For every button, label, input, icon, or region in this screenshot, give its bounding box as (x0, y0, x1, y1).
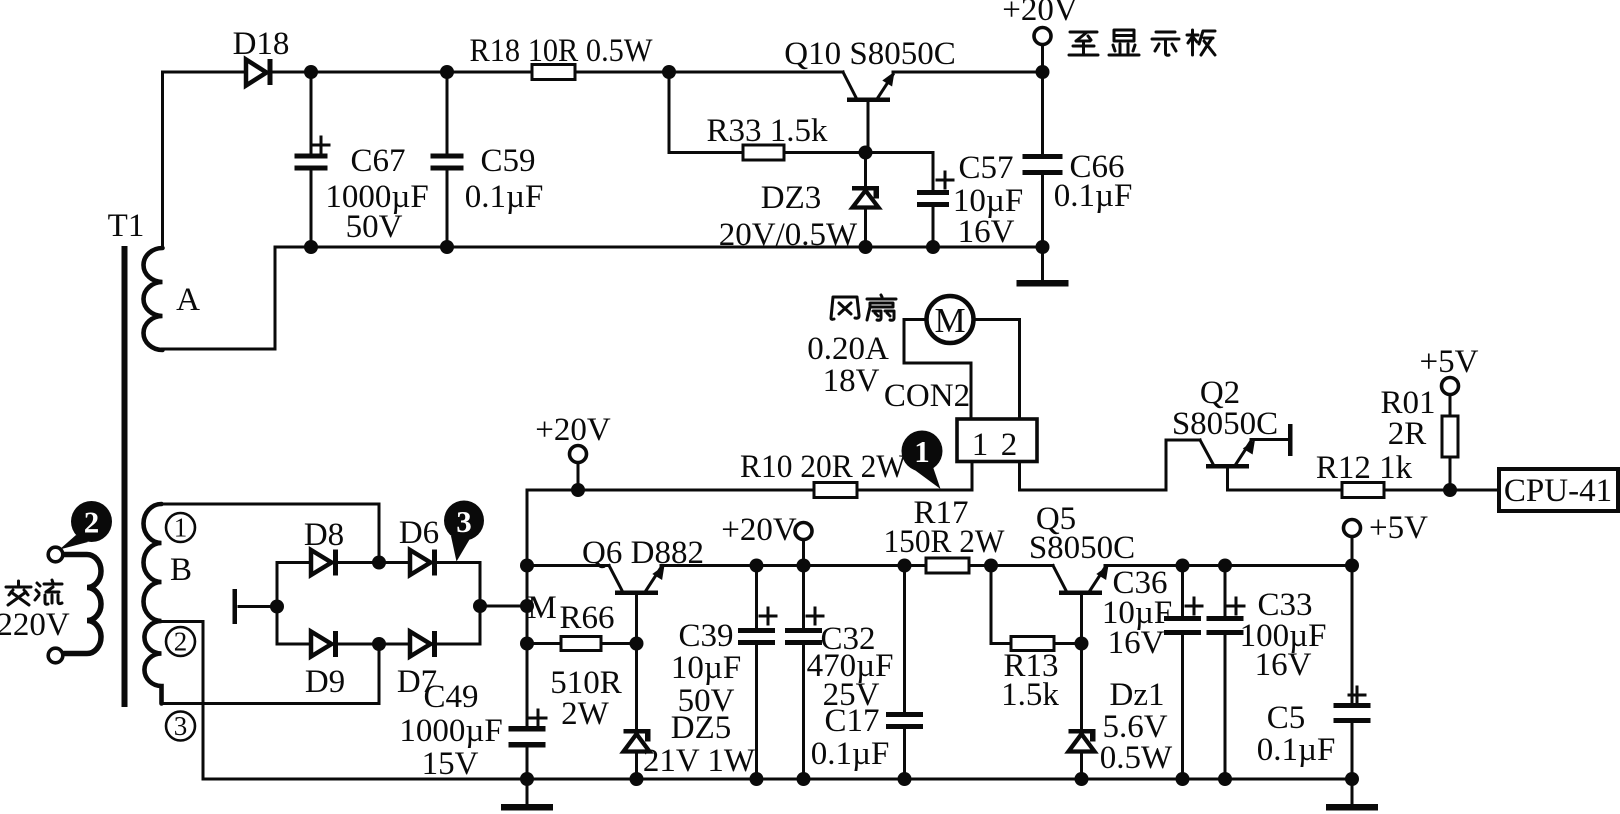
node junction R01 bottom (1443, 483, 1457, 497)
wire R01 to node (1449, 457, 1452, 490)
transformer T1 winding B (144, 504, 162, 704)
node junction Q5 base (1075, 637, 1089, 651)
node junction bridge bottom (372, 637, 386, 651)
pin 1 label CON2 (972, 427, 989, 463)
svg-text:R66: R66 (559, 600, 614, 636)
balloon marker 2 (60, 501, 113, 550)
wire Q2 base to R12 (1228, 489, 1343, 492)
transistor Q5 (1053, 565, 1109, 729)
pin 2 label CON2 (1001, 427, 1018, 463)
label D9 (305, 664, 345, 700)
svg-text:T1: T1 (108, 208, 145, 244)
label D7 (397, 664, 437, 700)
resistor R13 (1011, 637, 1082, 651)
resistor R18 (532, 65, 575, 80)
diode D6 (410, 550, 437, 576)
svg-text:C5: C5 (1267, 700, 1306, 736)
zener Dz1 (1069, 729, 1096, 779)
wire top rail left (163, 71, 247, 74)
capacitor C59 (431, 72, 464, 247)
motor M fan (927, 296, 974, 343)
ground under C66 (1017, 247, 1069, 287)
transistor Q2 (1200, 440, 1255, 490)
svg-text:R18 10R 0.5W: R18 10R 0.5W (470, 33, 654, 69)
svg-text:0.1µF: 0.1µF (465, 179, 544, 215)
terminal +20V mid (570, 446, 587, 491)
label fan current (807, 331, 889, 367)
svg-text:0.1µF: 0.1µF (1257, 732, 1336, 768)
capacitor C39 (738, 566, 776, 780)
svg-text:16V: 16V (1108, 625, 1165, 661)
wire bridge frame (277, 563, 480, 645)
svg-text:B: B (170, 552, 192, 588)
diode D7 (410, 631, 437, 657)
label Q2 (1172, 375, 1278, 442)
svg-text:D18: D18 (233, 26, 290, 62)
svg-text:20V/0.5W: 20V/0.5W (719, 217, 858, 253)
label +5V right (1369, 510, 1428, 546)
svg-text:15V: 15V (422, 746, 479, 782)
resistor R12 (1342, 483, 1384, 498)
label R01 value (1380, 385, 1435, 452)
node junction C32 bottom (797, 772, 811, 786)
svg-text:CON2: CON2 (884, 378, 970, 414)
terminal +5V top (1442, 378, 1459, 417)
label C33 (1240, 587, 1327, 683)
svg-text:1.5k: 1.5k (1001, 677, 1059, 713)
capacitor C66 (1023, 72, 1063, 247)
svg-text:16V: 16V (1255, 647, 1312, 683)
node junction R33 tap (662, 65, 676, 79)
node junction DZ5 bottom (630, 772, 644, 786)
label C5 (1257, 700, 1336, 768)
svg-text:+5V: +5V (1369, 510, 1428, 546)
svg-text:+20V: +20V (721, 512, 797, 548)
label Dz1 value (1100, 677, 1173, 776)
svg-text:1: 1 (174, 513, 188, 543)
node junction C36 bottom (1176, 772, 1190, 786)
svg-text:R12 1k: R12 1k (1316, 450, 1413, 486)
node junction C17 top (898, 559, 912, 573)
wire Q6 collector feed (527, 564, 609, 567)
svg-text:3: 3 (456, 504, 472, 539)
svg-text:0.1µF: 0.1µF (1054, 178, 1133, 214)
svg-text:0.5W: 0.5W (1100, 740, 1173, 776)
wire bridge to node M (480, 605, 527, 608)
label C66 (1054, 149, 1133, 214)
svg-text:DZ5: DZ5 (671, 710, 732, 746)
label DZ3 value (719, 180, 858, 253)
node junction Q6 collector tap (520, 559, 534, 573)
capacitor C33 (1207, 566, 1245, 780)
svg-text:220V: 220V (0, 607, 70, 643)
capacitor C57 (917, 172, 953, 247)
diode D18 (246, 59, 273, 86)
svg-text:S8050C: S8050C (1172, 406, 1278, 442)
wire winding B tap3 to bridge bottom (162, 644, 380, 704)
label C57 (953, 150, 1023, 250)
label R18 value (470, 33, 654, 69)
capacitor C32 (785, 566, 823, 780)
svg-text:1: 1 (972, 427, 989, 463)
label D6 (399, 515, 439, 551)
label +20V mid (535, 412, 611, 448)
label C32 (807, 621, 894, 713)
terminal AC primary bottom (48, 648, 63, 663)
label C17 (811, 703, 890, 772)
label R17 value (884, 495, 1006, 560)
label R13 value (1001, 648, 1059, 713)
label C39 (671, 618, 741, 719)
wire +20V rail to R10 (527, 489, 814, 492)
transformer T1 core (122, 246, 128, 707)
wire bottom ground rail (203, 778, 1352, 781)
svg-text:D8: D8 (304, 517, 344, 553)
label Q10 (784, 36, 955, 72)
node junction Q6 base R66 (630, 637, 644, 651)
resistor R10 (814, 483, 857, 498)
terminal +5V right (1344, 520, 1361, 566)
label FengShan fan (831, 295, 896, 320)
wire Q5 emitter rail +5V (1105, 564, 1352, 567)
wire winding A top riser (161, 72, 164, 248)
node junction C39 top (750, 559, 764, 573)
node junction C59 top (440, 65, 454, 79)
node M junction (520, 599, 534, 613)
wire fan left lead (904, 320, 971, 420)
wire R10 to CON2 pin1 (857, 489, 972, 492)
svg-text:M: M (527, 590, 556, 626)
capacitor C36 (1164, 566, 1202, 780)
node junction C49 bottom (520, 772, 534, 786)
svg-text:Dz1: Dz1 (1110, 677, 1165, 713)
svg-text:A: A (176, 282, 200, 318)
wire Q2 emitter to stub (1251, 438, 1288, 441)
node junction +5V C5 top (1345, 559, 1359, 573)
capacitor C17 (886, 566, 923, 780)
svg-text:M: M (934, 301, 965, 340)
node junction C5 bottom (1345, 772, 1359, 786)
node junction C67 bottom (304, 240, 318, 254)
capacitor C67 (295, 72, 330, 247)
wire bridge left stub (239, 605, 277, 608)
transformer primary winding (64, 555, 101, 654)
svg-text:2W: 2W (561, 696, 610, 732)
svg-text:R10 20R 2W: R10 20R 2W (740, 449, 907, 485)
svg-text:S8050C: S8050C (1029, 530, 1135, 566)
terminal +20V right (795, 523, 812, 566)
label node M (527, 590, 556, 626)
wire CON2 pin2 lead (1018, 462, 1021, 491)
wire R17 to Q5 (969, 564, 1053, 567)
node junction C66 bottom (1036, 240, 1050, 254)
svg-text:C67: C67 (350, 143, 405, 179)
label D8 (304, 517, 344, 553)
svg-text:Q6 D882: Q6 D882 (582, 535, 704, 571)
svg-text:+20V: +20V (535, 412, 611, 448)
label DZ5 value (643, 710, 756, 779)
wire top rail D18 to R18 (272, 71, 533, 74)
balloon marker 3 (444, 501, 484, 562)
label R10 value (740, 449, 907, 485)
svg-text:150R 2W: 150R 2W (884, 524, 1006, 560)
stub terminal bridge left (233, 589, 238, 624)
svg-text:C49: C49 (423, 679, 478, 715)
svg-text:3: 3 (174, 711, 188, 741)
label R12 value (1316, 450, 1413, 486)
label A (176, 282, 200, 318)
node junction bridge left (270, 600, 284, 614)
node junction DZ3 bottom (859, 240, 873, 254)
label C59 (465, 143, 544, 215)
svg-text:R33 1.5k: R33 1.5k (706, 113, 828, 149)
node junction C67 top (304, 65, 318, 79)
svg-text:C59: C59 (480, 143, 535, 179)
node junction C33 bottom (1218, 772, 1232, 786)
transistor Q10 (843, 72, 895, 153)
label AC 220V (0, 580, 70, 643)
svg-text:CPU-41: CPU-41 (1504, 473, 1612, 509)
zener DZ3 (852, 153, 879, 248)
label ZhiXianShiBan (1069, 30, 1215, 55)
label R33 value (706, 113, 828, 149)
svg-text:C39: C39 (678, 618, 733, 654)
svg-text:18V: 18V (823, 363, 880, 399)
svg-text:2: 2 (84, 505, 100, 540)
svg-text:16V: 16V (958, 214, 1015, 250)
balloon marker 1 (902, 431, 943, 490)
terminal +20V top (1034, 28, 1051, 73)
zener DZ5 (624, 729, 651, 779)
terminal AC primary top (48, 547, 63, 562)
transformer T1 winding A (144, 248, 163, 350)
label R66 value (550, 600, 622, 732)
resistor R01 (1442, 416, 1458, 457)
label T1 (108, 208, 145, 244)
node junction +20V C66 (1036, 65, 1050, 79)
svg-text:DZ3: DZ3 (761, 180, 822, 216)
wire winding A bottom to rail (163, 247, 276, 349)
svg-text:Q10 S8050C: Q10 S8050C (784, 36, 955, 72)
wire Q10 emitter to +20V node (893, 71, 1043, 74)
transistor Q6 (609, 565, 665, 729)
resistor R33 (743, 145, 784, 160)
stub terminal Q2 emitter (1288, 424, 1293, 456)
wire +20V riser at M (526, 490, 529, 726)
node label 3 circled (166, 711, 195, 741)
wire winding B tap2 to ground rail (162, 622, 204, 780)
wire R13 drop (991, 566, 1011, 644)
label Q6 (582, 535, 704, 571)
svg-text:0.1µF: 0.1µF (811, 736, 890, 772)
node junction R13 tap (984, 559, 998, 573)
node junction +20V mid (571, 483, 585, 497)
svg-text:D6: D6 (399, 515, 439, 551)
svg-text:50V: 50V (346, 209, 403, 245)
svg-text:+5V: +5V (1420, 344, 1479, 380)
svg-text:2R: 2R (1388, 416, 1427, 452)
label Q5 (1029, 501, 1135, 566)
label +5V top (1420, 344, 1479, 380)
diode D8 (311, 550, 338, 576)
label B (170, 552, 192, 588)
svg-text:D9: D9 (305, 664, 345, 700)
ground under C49 (501, 779, 553, 811)
node junction Dz1 bottom (1075, 772, 1089, 786)
connector CON2 (957, 419, 1037, 462)
wire CON2 pin2 to Q2 (1020, 440, 1201, 490)
node junction C57 bottom (926, 240, 940, 254)
svg-text:21V 1W: 21V 1W (643, 743, 756, 779)
svg-text:1: 1 (914, 434, 930, 469)
wire top rail R18 to Q10 (575, 71, 843, 74)
svg-text:2: 2 (1001, 427, 1018, 463)
node junction C59 bottom (440, 240, 454, 254)
box CPU-41 (1499, 469, 1618, 511)
diode D9 (311, 631, 338, 657)
wire R33 riser (669, 72, 743, 153)
node label 2 circled (166, 627, 195, 657)
label C67 (325, 143, 428, 245)
svg-text:+20V: +20V (1002, 0, 1078, 28)
svg-text:C57: C57 (958, 150, 1013, 186)
node junction C32 +20V top (797, 559, 811, 573)
svg-text:2: 2 (174, 627, 188, 657)
capacitor C5 (1334, 566, 1371, 780)
wire R33 to DZ3 node (784, 151, 866, 154)
label C36 (1102, 565, 1172, 661)
node junction DZ3 top (859, 146, 873, 160)
wire fan right lead (974, 320, 1020, 420)
node label 1 circled (166, 513, 195, 543)
resistor R17 (926, 558, 969, 573)
wire upper ground rail (275, 246, 1043, 249)
node junction bridge right (473, 599, 487, 613)
node junction R66 left (520, 637, 534, 651)
label +20V right (721, 512, 797, 548)
node junction bridge top (372, 556, 386, 570)
svg-text:C17: C17 (824, 703, 879, 739)
node junction C39 bottom (750, 772, 764, 786)
wire R12 to CPU-41 (1384, 489, 1499, 492)
svg-text:10µF: 10µF (671, 650, 741, 686)
node junction C17 bottom (898, 772, 912, 786)
wire CON2 pin1 lead (971, 462, 974, 491)
resistor R66 (527, 637, 637, 651)
wire DZ3 node to C57 (866, 153, 934, 191)
svg-text:0.20A: 0.20A (807, 331, 889, 367)
label C49 (399, 679, 502, 782)
label fan voltage (823, 363, 880, 399)
label +20V top (1002, 0, 1078, 28)
node junction C33 top (1218, 559, 1232, 573)
svg-text:1000µF: 1000µF (399, 713, 502, 749)
ground under C5 (1326, 779, 1378, 811)
label D18 (233, 26, 290, 62)
wire winding B tap1 to bridge top (162, 504, 380, 563)
label CON2 (884, 378, 970, 414)
node junction C36 top (1176, 559, 1190, 573)
wire Q6 emitter rail (661, 564, 926, 567)
capacitor C49 (509, 710, 547, 779)
